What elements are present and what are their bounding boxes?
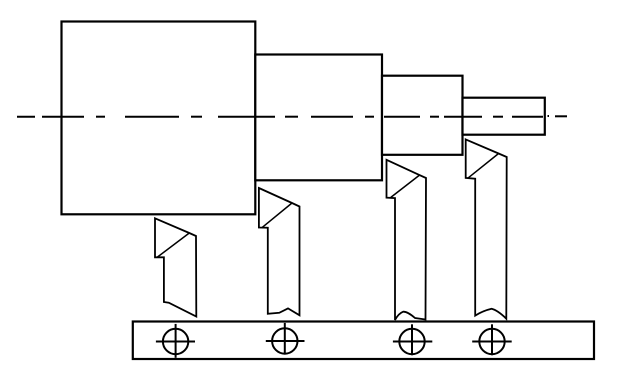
bolt hole 4 crosshair	[472, 341, 512, 343]
bolt hole 4 circle	[479, 329, 504, 354]
tool 1 outline	[155, 218, 196, 316]
tool 3 outline	[387, 160, 427, 320]
tool post bar	[133, 322, 594, 360]
bolt hole 1 crosshair	[156, 341, 195, 343]
bolt hole 2 crosshair	[266, 340, 305, 342]
centerline (dash-dot axis)	[17, 115, 567, 118]
tool 2 cutting edge line	[262, 203, 292, 227]
bolt hole 3 crosshair	[393, 341, 432, 343]
shaft step 3	[382, 76, 463, 155]
tool 4 outline	[466, 139, 507, 318]
shaft step 4 (end stub)	[463, 98, 545, 135]
tool 4 cutting edge line	[468, 154, 498, 178]
bolt hole 2 circle	[272, 328, 297, 353]
shaft step 2	[255, 55, 382, 181]
tool 2 outline	[259, 188, 300, 315]
bolt hole 1 circle	[163, 329, 188, 354]
shaft step 1 (largest diameter)	[62, 22, 256, 215]
bolt hole 3 circle	[399, 329, 424, 354]
tool 1 cutting edge line	[158, 233, 190, 257]
tool 3 cutting edge line	[391, 175, 420, 197]
